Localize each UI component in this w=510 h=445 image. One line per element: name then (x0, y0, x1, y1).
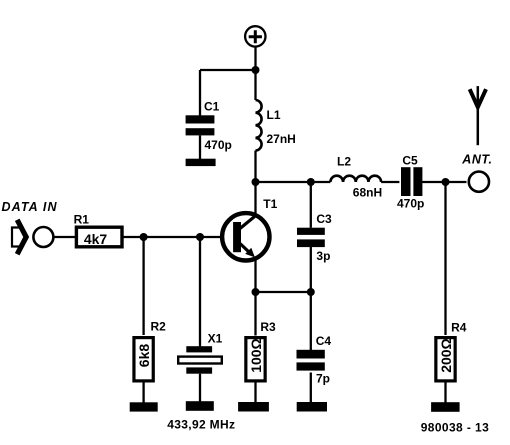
svg-text:470p: 470p (205, 138, 232, 152)
svg-text:6k8: 6k8 (136, 344, 152, 368)
svg-text:R1: R1 (74, 212, 90, 226)
svg-text:7p: 7p (316, 372, 330, 386)
svg-text:DATA IN: DATA IN (2, 200, 58, 214)
svg-text:T1: T1 (263, 197, 277, 211)
svg-text:4k7: 4k7 (84, 231, 108, 247)
svg-text:100Ω: 100Ω (248, 338, 264, 373)
svg-text:R4: R4 (451, 321, 467, 335)
svg-text:C5: C5 (402, 153, 418, 167)
svg-text:C3: C3 (316, 212, 332, 226)
svg-text:X1: X1 (208, 331, 223, 345)
svg-text:200Ω: 200Ω (438, 338, 454, 373)
svg-text:433,92 MHz: 433,92 MHz (167, 418, 235, 432)
svg-text:C4: C4 (316, 334, 332, 348)
svg-text:980038 - 13: 980038 - 13 (421, 420, 489, 434)
svg-text:L2: L2 (337, 155, 351, 169)
svg-text:R3: R3 (260, 320, 276, 334)
svg-text:L1: L1 (267, 108, 281, 122)
svg-text:3p: 3p (316, 249, 330, 263)
svg-text:470p: 470p (397, 197, 424, 211)
svg-text:27nH: 27nH (267, 132, 296, 146)
svg-text:68nH: 68nH (353, 186, 382, 200)
svg-text:R2: R2 (151, 319, 167, 333)
svg-text:ANT.: ANT. (461, 153, 492, 167)
svg-text:C1: C1 (204, 100, 220, 114)
